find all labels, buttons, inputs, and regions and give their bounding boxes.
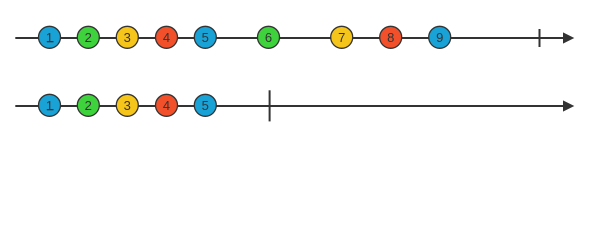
timeline 2 arrowhead — [563, 100, 574, 111]
marble 6 (green) timeline 1 — [258, 26, 280, 48]
svg-text:2: 2 — [85, 30, 92, 45]
timeline 1 arrowhead — [563, 32, 574, 43]
marble 5 (blue) timeline 1 — [194, 26, 216, 48]
marble 4 (red) timeline 1 — [156, 26, 178, 48]
svg-text:3: 3 — [124, 30, 131, 45]
marble 1 (blue) timeline 1 — [39, 26, 61, 48]
svg-text:2: 2 — [85, 98, 92, 113]
svg-text:3: 3 — [124, 98, 131, 113]
svg-text:1: 1 — [46, 98, 53, 113]
svg-text:5: 5 — [202, 30, 209, 45]
svg-text:7: 7 — [338, 30, 345, 45]
timeline 1 axis — [15, 37, 566, 39]
marble 3 (yellow) timeline 2 — [116, 94, 138, 116]
marble 3 (yellow) timeline 1 — [116, 26, 138, 48]
svg-text:9: 9 — [436, 30, 443, 45]
marble 8 (red) timeline 1 — [380, 26, 402, 48]
marble 5 (blue) timeline 2 — [194, 94, 216, 116]
timeline 2 completion bar — [269, 90, 271, 121]
timeline 2 axis — [15, 105, 566, 107]
svg-text:8: 8 — [387, 30, 394, 45]
svg-text:1: 1 — [46, 30, 53, 45]
marble 2 (green) timeline 1 — [77, 26, 99, 48]
marble 4 (red) timeline 2 — [156, 94, 178, 116]
svg-text:5: 5 — [202, 98, 209, 113]
timeline 1 completion bar — [539, 29, 541, 47]
svg-text:4: 4 — [163, 30, 170, 45]
marble 1 (blue) timeline 2 — [39, 94, 61, 116]
marble 9 (blue) timeline 1 — [429, 26, 451, 48]
marble 2 (green) timeline 2 — [77, 94, 99, 116]
svg-text:4: 4 — [163, 98, 170, 113]
svg-text:6: 6 — [265, 30, 272, 45]
marble 7 (yellow) timeline 1 — [331, 26, 353, 48]
